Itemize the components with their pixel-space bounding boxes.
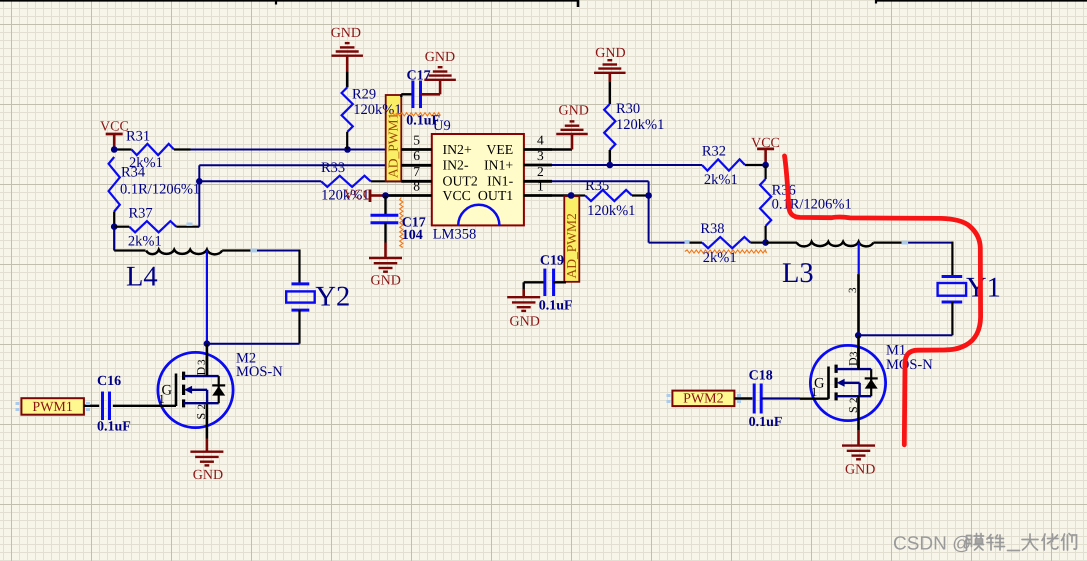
wire M1 drain pin upper bbox=[857, 274, 860, 335]
wire Y1 bottom bbox=[951, 302, 953, 335]
wire R30 GND stem bbox=[608, 73, 611, 82]
power VCC right symbol bbox=[757, 147, 774, 150]
svg-text:VCC: VCC bbox=[344, 186, 372, 201]
wire R37 left lead bbox=[114, 226, 129, 228]
svg-text:0.1R/1206%1: 0.1R/1206%1 bbox=[772, 197, 852, 213]
svg-text:CSDN @: CSDN @ bbox=[893, 534, 971, 555]
wire R29 bottom lead bbox=[346, 132, 348, 150]
pin 8 stub bbox=[386, 194, 432, 197]
resistor R34 bbox=[109, 157, 120, 212]
wire pin4 to GND bbox=[552, 148, 572, 150]
wire pin1 to label bbox=[552, 194, 571, 196]
capacitor C17b bbox=[371, 214, 399, 217]
svg-text:8: 8 bbox=[413, 178, 420, 193]
capacitor C19 bbox=[543, 269, 546, 296]
svg-text:IN1-: IN1- bbox=[487, 174, 513, 189]
wire R31 right lead bbox=[174, 148, 191, 150]
resistor R32 bbox=[702, 159, 745, 170]
svg-text:2k%1: 2k%1 bbox=[704, 172, 738, 188]
svg-text:C17: C17 bbox=[407, 68, 431, 83]
svg-text:1: 1 bbox=[811, 385, 817, 399]
svg-text:3: 3 bbox=[196, 359, 208, 365]
wire R35 right lead bbox=[632, 194, 649, 196]
wire L3 left lead bbox=[766, 241, 797, 243]
marker wavy under R38 bbox=[685, 250, 767, 253]
svg-text:MOS-N: MOS-N bbox=[886, 357, 933, 373]
wire stub at x=276 bbox=[275, 0, 277, 5]
crystal Y2 top plate bbox=[292, 282, 310, 285]
pin 3 stub bbox=[524, 164, 552, 167]
svg-text:U9: U9 bbox=[433, 118, 451, 134]
wire M1 drain pin lower bbox=[857, 335, 860, 369]
wire C16 to M2 gate bbox=[113, 405, 176, 407]
svg-text:2: 2 bbox=[537, 164, 544, 179]
wire L4 tap to M2 drain bbox=[206, 251, 208, 344]
power GND symbol M2 bbox=[190, 451, 223, 453]
wire R37 right lead bbox=[176, 226, 199, 228]
transistor M2 bbox=[158, 352, 233, 427]
resistor R38 bbox=[702, 237, 750, 248]
capacitor C18 bbox=[753, 384, 756, 414]
resistor R30 bbox=[604, 104, 615, 150]
capacitor C17a bbox=[411, 81, 414, 109]
wire M2 drain pin bbox=[206, 344, 209, 377]
junction node R36/R38/L3 bbox=[762, 239, 769, 246]
junction node M2 drain/Y2 bbox=[204, 340, 211, 347]
transistor M1 bbox=[810, 345, 885, 420]
svg-text:GND: GND bbox=[595, 46, 625, 61]
junction node riser/R33 bbox=[196, 178, 203, 185]
wire L3 to Y1 bbox=[904, 242, 953, 244]
wire net to C17a bbox=[401, 93, 413, 95]
svg-text:R37: R37 bbox=[129, 206, 153, 222]
svg-text:0.1uF: 0.1uF bbox=[97, 420, 131, 435]
wire L4 to Y2 top bbox=[255, 250, 301, 252]
power GND symbol C17a bbox=[424, 79, 456, 81]
wire M2 GND stem bbox=[206, 439, 209, 452]
port PWM1 bbox=[21, 398, 84, 415]
wire R29 GND stem bbox=[346, 56, 349, 72]
power GND stem pin4 bbox=[571, 135, 574, 150]
svg-text:0.1uF: 0.1uF bbox=[749, 415, 783, 430]
marker wavy under 0.1uF bbox=[391, 113, 441, 116]
svg-text:C19: C19 bbox=[540, 253, 564, 268]
wire pin3 to R30 bbox=[552, 164, 610, 166]
junction node pin8/C17b bbox=[382, 192, 389, 199]
junction node VCC/R32/R36 bbox=[762, 162, 769, 169]
svg-text:D: D bbox=[846, 357, 860, 366]
inductor L3 bbox=[797, 242, 874, 247]
svg-text:IN2+: IN2+ bbox=[443, 142, 472, 157]
svg-text:6: 6 bbox=[413, 148, 420, 163]
capacitor C16 bbox=[101, 392, 104, 421]
wire R38 right lead bbox=[750, 242, 765, 244]
wire R36 top lead bbox=[764, 165, 766, 179]
wire top edge right segment bbox=[876, 0, 1087, 2]
power GND stem C17a bbox=[439, 81, 442, 95]
svg-text:L3: L3 bbox=[782, 258, 814, 289]
svg-text:R33: R33 bbox=[321, 160, 345, 176]
resistor R31 bbox=[132, 144, 175, 155]
svg-text:2k%1: 2k%1 bbox=[703, 250, 737, 266]
wire PWM2 to C18 bbox=[735, 397, 753, 399]
junction node R35/riser bbox=[645, 192, 652, 199]
svg-text:L4: L4 bbox=[126, 262, 158, 293]
power GND symbol pin4 bbox=[556, 133, 588, 135]
wire R33 left lead bbox=[199, 180, 321, 182]
svg-text:OUT1: OUT1 bbox=[478, 188, 513, 203]
svg-text:104: 104 bbox=[402, 228, 423, 243]
wire R34 bottom lead bbox=[113, 212, 115, 227]
svg-text:2k%1: 2k%1 bbox=[128, 234, 162, 250]
wire Y2 bottom bbox=[298, 310, 300, 344]
svg-text:S: S bbox=[194, 413, 208, 420]
wire R33 right lead bbox=[371, 180, 432, 182]
wire C17b bottom lead bbox=[384, 223, 386, 243]
wire R30node to R32 bbox=[610, 164, 702, 166]
power VCC left symbol bbox=[106, 133, 123, 136]
resistor R35 bbox=[585, 190, 632, 201]
power GND symbol M1 bbox=[842, 444, 875, 446]
svg-text:OUT2: OUT2 bbox=[443, 174, 478, 189]
pin 4 stub bbox=[524, 148, 552, 151]
net label AD_PWM2 box bbox=[564, 196, 579, 282]
wire label to R35 bbox=[571, 194, 585, 196]
svg-text:LM358: LM358 bbox=[433, 226, 477, 242]
wire R32 right lead bbox=[745, 164, 766, 166]
svg-text:VCC: VCC bbox=[443, 188, 471, 203]
svg-text:GND: GND bbox=[193, 468, 223, 483]
svg-text:3: 3 bbox=[537, 148, 544, 163]
annotation red freehand line bbox=[785, 156, 981, 445]
wire C17b GND stem bbox=[384, 243, 387, 259]
op-amp U9 notch arc bbox=[458, 205, 499, 226]
resistor R33 bbox=[321, 176, 371, 187]
port PWM2 bbox=[672, 391, 734, 407]
crystal Y1 body bbox=[938, 283, 967, 296]
svg-text:GND: GND bbox=[331, 26, 361, 41]
resistor R36 bbox=[760, 179, 771, 226]
junction node pin1 over label bbox=[568, 192, 575, 199]
wire stub at x=876 bbox=[875, 0, 877, 4]
power GND symbol C19 bbox=[507, 296, 540, 298]
wire C17b top lead bbox=[384, 196, 386, 216]
pin 5 stub bbox=[401, 148, 432, 151]
pin 1 stub bbox=[524, 194, 552, 197]
pin 7 stub bbox=[401, 180, 432, 183]
wire C19 row bbox=[524, 281, 545, 283]
crystal Y2 bottom plate bbox=[292, 309, 310, 312]
svg-text:IN2-: IN2- bbox=[443, 158, 469, 173]
svg-text:5: 5 bbox=[413, 132, 420, 147]
svg-text:R31: R31 bbox=[126, 129, 150, 145]
svg-text:PWM2: PWM2 bbox=[683, 392, 723, 407]
svg-text:Y2: Y2 bbox=[315, 281, 350, 312]
wire riser pin6-R37 bbox=[198, 165, 200, 226]
svg-text:3: 3 bbox=[848, 351, 860, 357]
svg-text:R35: R35 bbox=[585, 178, 609, 194]
wire C19 to label bbox=[554, 281, 566, 283]
wire C19 GND drop bbox=[523, 282, 525, 289]
resistor R29 bbox=[342, 87, 353, 132]
svg-text:VCC: VCC bbox=[100, 120, 129, 135]
svg-text:120k%1: 120k%1 bbox=[616, 117, 664, 133]
wire L4 right lead bbox=[222, 249, 254, 251]
junction node R30/row3 bbox=[607, 162, 614, 169]
wire VCC right stem bbox=[764, 149, 767, 165]
svg-text:MOS-N: MOS-N bbox=[236, 364, 283, 380]
wire L4 left lead bbox=[114, 249, 145, 251]
svg-text:C18: C18 bbox=[749, 368, 773, 383]
wire row6 to U9 bbox=[199, 164, 431, 166]
wire M1 GND stem bbox=[857, 430, 860, 445]
marker wavy under AD_PWM1 bbox=[400, 197, 403, 247]
svg-text:D: D bbox=[194, 367, 208, 376]
wire top edge left segment bbox=[0, 0, 578, 2]
wire C17a to GND bbox=[421, 93, 441, 96]
svg-text:R30: R30 bbox=[616, 101, 640, 117]
power GND symbol above R29 bbox=[331, 55, 363, 57]
junction node VCC/R31/R34 bbox=[111, 146, 118, 153]
wire pin2 right bbox=[552, 180, 649, 182]
svg-text:R32: R32 bbox=[702, 143, 726, 159]
svg-text:2: 2 bbox=[196, 404, 208, 410]
wire L3 right lead bbox=[873, 242, 904, 244]
svg-text:1: 1 bbox=[537, 178, 544, 193]
svg-text:R29: R29 bbox=[352, 86, 376, 102]
wire R31 left lead bbox=[114, 148, 131, 150]
svg-text:GND: GND bbox=[371, 274, 401, 289]
wire C18 to M1 gate bbox=[761, 397, 800, 399]
svg-text:4: 4 bbox=[537, 132, 544, 147]
svg-text:R34: R34 bbox=[121, 165, 146, 181]
inductor L4 bbox=[146, 250, 222, 255]
wire PWM1 to C16 bbox=[84, 405, 99, 407]
crystal Y1 top plate bbox=[942, 275, 963, 278]
svg-text:GND: GND bbox=[425, 50, 455, 65]
wire VCC stem bbox=[113, 134, 116, 150]
svg-text:GND: GND bbox=[845, 463, 875, 478]
junction node M1 drain/Y1 bbox=[855, 332, 862, 339]
svg-text:AD_PWM1: AD_PWM1 bbox=[386, 113, 401, 178]
crystal Y2 body bbox=[286, 291, 315, 302]
svg-text:3: 3 bbox=[847, 287, 859, 293]
wire R30 bottom lead bbox=[609, 150, 611, 165]
op-amp U9 body bbox=[432, 134, 524, 225]
svg-text:GND: GND bbox=[510, 315, 540, 330]
svg-text:0.1uF: 0.1uF bbox=[539, 299, 573, 314]
wire R30 top lead bbox=[609, 82, 611, 104]
wire R36 bottom lead bbox=[764, 226, 766, 243]
svg-text:0.1R/1206%1: 0.1R/1206%1 bbox=[120, 182, 200, 198]
crystal Y1 bottom plate bbox=[942, 301, 963, 304]
marker selection dashes bbox=[16, 223, 909, 412]
wire R29 top lead bbox=[346, 71, 349, 87]
wire R37 node to L4 bbox=[113, 227, 115, 251]
svg-text:S: S bbox=[846, 406, 860, 413]
power GND symbol C17b bbox=[369, 257, 402, 259]
svg-text:R38: R38 bbox=[700, 221, 724, 237]
junction node R29/row5 bbox=[344, 146, 351, 153]
svg-text:PWM1: PWM1 bbox=[32, 400, 72, 415]
wire riser right bbox=[648, 181, 650, 242]
svg-text:Y1: Y1 bbox=[966, 273, 1001, 304]
svg-text:VEE: VEE bbox=[486, 142, 513, 157]
svg-text:1: 1 bbox=[159, 392, 165, 406]
wire R38 left lead bbox=[649, 242, 686, 244]
net label AD_PWM1 box bbox=[386, 95, 402, 181]
wire L3 tap to M1 bbox=[858, 243, 860, 275]
svg-text:AD_PWM2: AD_PWM2 bbox=[564, 213, 579, 278]
wire VCC mini stem bbox=[370, 194, 386, 197]
svg-text:7: 7 bbox=[413, 164, 420, 179]
resistor R37 bbox=[129, 221, 176, 232]
svg-text:GND: GND bbox=[559, 104, 589, 119]
wire row5 to U9 bbox=[191, 149, 432, 151]
wire M2 source pin bbox=[206, 427, 209, 438]
wire M1 source pin bbox=[857, 420, 860, 430]
pin 2 stub bbox=[524, 180, 552, 183]
junction node pin1/AD_PWM2 bbox=[568, 192, 575, 199]
svg-text:C16: C16 bbox=[97, 374, 121, 389]
pin 6 stub bbox=[401, 164, 432, 167]
wire stub at x=578 bbox=[577, 0, 580, 7]
power VCC mini symbol bbox=[369, 190, 372, 203]
svg-text:IN1+: IN1+ bbox=[484, 157, 513, 172]
svg-text:120k%1: 120k%1 bbox=[587, 203, 635, 219]
junction node R34/R37/L4 bbox=[111, 223, 118, 230]
power GND symbol above R30 bbox=[594, 72, 626, 74]
watermark CJK glyphs bbox=[967, 534, 1077, 551]
svg-text:2: 2 bbox=[848, 398, 860, 404]
